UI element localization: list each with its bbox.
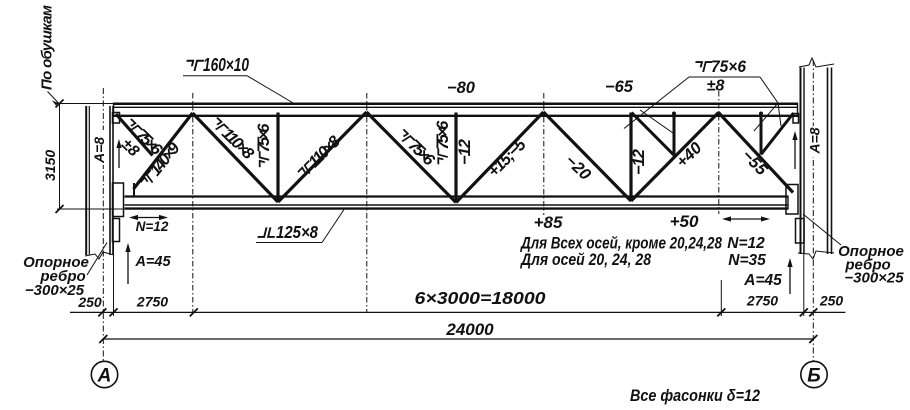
svg-text:A=8: A=8 xyxy=(807,127,823,154)
svg-text:250: 250 xyxy=(819,293,844,309)
svg-text:+85: +85 xyxy=(534,213,563,232)
extension line truss left end xyxy=(113,242,115,316)
sub-strut vertical 75x6 at x=761 xyxy=(760,113,763,155)
junction dot at top of sub-strut x=761 xyxy=(759,112,763,116)
vertical post at node B3 xyxy=(629,113,632,202)
label vertical B2: 75x6 xyxy=(434,120,452,166)
column axis А (dash-dot) xyxy=(102,88,104,361)
svg-text:−80: −80 xyxy=(447,79,476,97)
label diagonal B1-T2: 110x8 xyxy=(294,132,345,183)
leader of right support rib note xyxy=(803,214,841,245)
node axis line T3 (dash-dot) xyxy=(543,93,545,215)
axis bubble Б xyxy=(801,361,827,387)
diagonal 110x8 ascending B1 to T2 xyxy=(278,112,367,202)
extension line top chord level xyxy=(57,103,113,105)
sub-strut diagonal 75x6 from right corner node to junction xyxy=(761,113,794,155)
weld arrow A=45 left xyxy=(125,243,130,284)
left column (колонна по оси А) xyxy=(85,106,114,259)
sub-strut vertical 75x6 at x=674 xyxy=(673,113,676,156)
right column (колонна по оси Б, с обрывами) xyxy=(798,58,834,259)
label top chord: 160x10 xyxy=(185,55,249,75)
svg-text:−300×25: −300×25 xyxy=(25,282,85,299)
svg-text:A=45: A=45 xyxy=(134,254,171,270)
svg-text:A=8: A=8 xyxy=(91,137,107,164)
label vertical B1: 75x6 xyxy=(255,123,273,169)
svg-text:−12: −12 xyxy=(456,139,474,165)
node axis line T4 (dash-dot) xyxy=(718,91,720,214)
svg-text:По обушкам: По обушкам xyxy=(39,5,56,90)
dimension line 250/2750/18000/2750/250 xyxy=(70,311,846,313)
label bottom chord: 125x8 xyxy=(258,222,319,242)
dimension line 3150 (truss depth) xyxy=(59,104,61,210)
diagonal ascending B2 to T3 xyxy=(456,112,544,203)
label diagonal T2-B2: 75x6 xyxy=(393,125,438,170)
diagonal 110x8 descending T1 to B1 xyxy=(193,113,279,202)
svg-text:24000: 24000 xyxy=(445,320,494,339)
double arrow N=12 right xyxy=(722,216,770,221)
support diagonal 140x9 from left support node to top node T1 xyxy=(134,113,193,196)
svg-text:A=45: A=45 xyxy=(743,272,782,289)
svg-text:75×6: 75×6 xyxy=(255,123,273,153)
weld arrow A=8 left xyxy=(116,139,121,168)
leaders of sub-strut label 75x6 +-8 xyxy=(624,77,781,133)
svg-text:±8: ±8 xyxy=(707,78,725,95)
svg-text:2750: 2750 xyxy=(136,294,168,310)
svg-text:75×6: 75×6 xyxy=(711,57,746,76)
weld note A=8 on left column (rotated) xyxy=(91,130,107,165)
svg-text:3150: 3150 xyxy=(42,150,58,181)
svg-text:2750: 2750 xyxy=(746,293,778,309)
diagonal ascending B3 to T4 xyxy=(631,113,719,202)
weld arrow A=45 right xyxy=(787,258,792,294)
note left support rib -300x25 xyxy=(23,254,89,299)
dimension line 24000 xyxy=(103,338,814,340)
extension line panel point T4 xyxy=(720,280,722,316)
weld note A=8 on right column (rotated) xyxy=(807,126,823,157)
node axis line T2 (dash-dot) xyxy=(366,93,368,312)
svg-text:125×8: 125×8 xyxy=(276,222,318,242)
svg-text:Все фасонки δ=12: Все фасонки δ=12 xyxy=(630,386,760,405)
vertical post 75x6 at node B1 xyxy=(276,113,279,203)
leader of left support rib note xyxy=(87,243,107,276)
junction dot at top of sub-strut x=674 xyxy=(672,112,676,116)
svg-text:75×6: 75×6 xyxy=(434,120,452,150)
double arrow N=12 left xyxy=(129,215,168,220)
svg-text:Б: Б xyxy=(807,366,820,387)
extension line truss right end xyxy=(803,246,805,316)
label support diagonal: 140x9 xyxy=(136,139,184,192)
svg-text:N=12: N=12 xyxy=(136,219,169,234)
label end sub-strut: 75x6 xyxy=(121,115,166,160)
svg-text:−300×25: −300×25 xyxy=(844,270,904,287)
svg-text:Для осей 20, 24, 28: Для осей 20, 24, 28 xyxy=(519,250,651,269)
bottom chord (нижний пояс, парные уголки 125x8) xyxy=(125,196,789,209)
support diagonal descending T4 to right support xyxy=(719,113,794,193)
svg-text:160×10: 160×10 xyxy=(203,55,249,75)
right support rib plate -300x25 xyxy=(786,114,804,244)
svg-text:−65: −65 xyxy=(605,78,634,96)
svg-text:N=12: N=12 xyxy=(727,235,765,252)
diagonal 75x6 descending T2 to B2 xyxy=(367,112,457,203)
left support rib plate -300x25 xyxy=(113,113,124,242)
diagonal descending T3 to B3 xyxy=(544,112,632,201)
top chord (верхний пояс, парные уголки 160x10) xyxy=(113,103,798,116)
node axis line T1 (dash-dot) xyxy=(192,93,194,312)
sub-strut diagonal 75x6 from B3 top to junction xyxy=(632,113,675,156)
svg-text:6×3000=18000: 6×3000=18000 xyxy=(415,288,546,308)
svg-text:N=35: N=35 xyxy=(728,252,766,269)
vertical post 75x6 at node B2 xyxy=(454,113,457,203)
extension line bottom chord level xyxy=(57,208,124,210)
leader of top chord label 160x10 xyxy=(183,76,294,104)
svg-text:+50: +50 xyxy=(670,212,699,231)
column axis Б (dash-dot) xyxy=(812,60,814,361)
leader of bottom chord label 125x8 xyxy=(256,210,344,243)
svg-text:−12: −12 xyxy=(630,149,648,175)
note right support rib -300x25 xyxy=(838,243,904,287)
leader of "По обушкам" note xyxy=(48,92,59,104)
label diagonal T1-B1: 110x8 xyxy=(207,113,258,163)
weld arrow A=8 right xyxy=(792,131,797,169)
dimension tick marks (slashes) xyxy=(56,100,818,344)
svg-text:А: А xyxy=(97,366,112,387)
axis bubble А xyxy=(91,361,117,387)
label sub-struts: 75x6 xyxy=(694,57,746,76)
end sub-strut 75x6 from top-left node T0 to support diagonal xyxy=(116,114,153,156)
